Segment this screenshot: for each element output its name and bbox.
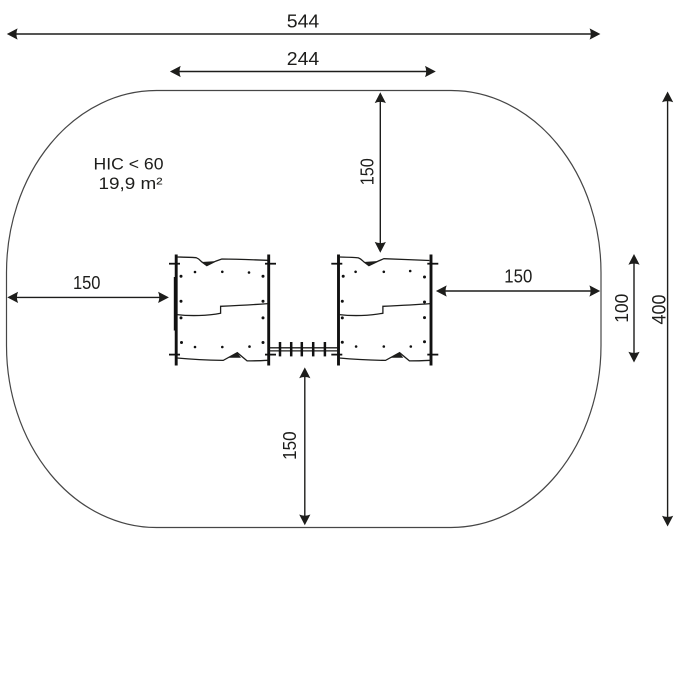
rail lower (270, 350, 338, 352)
middle shelf line (339, 304, 430, 316)
svg-text:HIC < 60: HIC < 60 (94, 155, 164, 173)
right post ticks (427, 263, 438, 265)
right post ticks (265, 263, 276, 265)
dimension 150 left (7, 272, 169, 303)
rail upper (270, 347, 338, 349)
dimension 400 right vertical (649, 92, 674, 527)
dimension 244 (170, 48, 436, 77)
bottom notch (391, 353, 403, 358)
right post (430, 255, 433, 366)
left post (175, 255, 178, 366)
left post ticks (169, 263, 180, 265)
svg-text:150: 150 (504, 266, 532, 287)
svg-text:150: 150 (73, 272, 101, 293)
dimension 544 top (7, 10, 601, 39)
right post (267, 255, 270, 366)
top notch (363, 261, 378, 266)
dimension 150 bottom vertical (279, 367, 310, 525)
left post ticks (331, 263, 342, 265)
svg-text:19,9 m²: 19,9 m² (99, 175, 164, 193)
svg-text:400: 400 (649, 294, 671, 324)
bottom edge (177, 353, 269, 361)
svg-text:150: 150 (357, 158, 378, 185)
safety zone outline (7, 91, 602, 528)
left post (337, 255, 340, 366)
bottom notch (229, 353, 241, 358)
dimension 100 right vertical (611, 254, 640, 363)
dimension 150 top vertical (357, 92, 386, 252)
svg-text:244: 244 (287, 48, 320, 69)
rungs (280, 342, 325, 356)
fixing dots (180, 271, 265, 349)
HIC text (94, 155, 164, 193)
play panel left (169, 255, 276, 366)
svg-text:150: 150 (279, 431, 300, 460)
top edge (339, 257, 429, 266)
top edge (177, 257, 268, 266)
svg-text:100: 100 (611, 294, 632, 323)
dimension 150 right (436, 266, 600, 297)
svg-text:544: 544 (287, 10, 320, 31)
middle shelf line (177, 304, 268, 316)
ladder bridge (270, 342, 338, 356)
play panel right (331, 255, 438, 366)
left post thickened middle segment (174, 277, 176, 331)
top notch (201, 261, 216, 266)
bottom edge (339, 353, 431, 361)
fixing dots (341, 270, 426, 348)
